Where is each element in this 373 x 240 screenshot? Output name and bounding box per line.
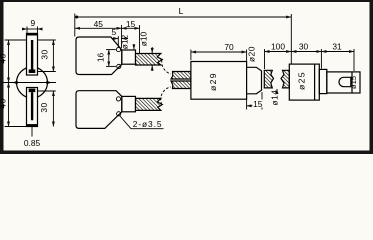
bottom bar bottom cap (27, 124, 37, 126)
svg-text:40: 40 (0, 98, 7, 108)
dashed bend curve lower (161, 87, 171, 105)
L dim line (75, 16, 291, 18)
45/15 shared ext (121, 25, 123, 48)
dim 70 line (191, 51, 247, 53)
border frame (0, 0, 373, 154)
stub (122, 50, 136, 64)
dim 40 lines left (8, 40, 10, 83)
connector slot (339, 77, 351, 86)
svg-text:ø25: ø25 (296, 71, 306, 90)
dim 40 top ext line (5, 39, 27, 41)
o10 arrow (151, 47, 153, 53)
dim 16 ext lines (106, 49, 116, 51)
svg-text:ø15: ø15 (349, 76, 358, 89)
svg-text:0.85: 0.85 (24, 138, 41, 148)
dim 5 ext from hole (117, 36, 119, 47)
dim 30 bottom right ext (38, 90, 56, 92)
svg-text:2-ø3.5: 2-ø3.5 (133, 119, 163, 129)
hole top (116, 48, 120, 52)
prong body (76, 91, 122, 129)
svg-text:30: 30 (299, 42, 309, 52)
hole top (116, 97, 120, 101)
bottom bar slot (31, 92, 33, 121)
L right ext (shared w 100/30) (290, 14, 292, 64)
15 right ext (139, 25, 141, 55)
svg-text:ø29: ø29 (208, 72, 218, 91)
svg-text:15: 15 (126, 19, 136, 29)
dim 45 line (75, 27, 122, 29)
svg-text:30: 30 (39, 49, 49, 59)
dashed bend curve upper (162, 60, 171, 74)
lower conduit hatched (136, 98, 163, 110)
svg-text:5: 5 (111, 27, 116, 37)
svg-text:ø12: ø12 (120, 34, 130, 49)
upper conduit hatched (136, 54, 163, 66)
equator tick left (15, 81, 18, 83)
circle boss (17, 67, 48, 98)
dim 40 bottom ext line (5, 126, 27, 128)
bottom bar segment outline (27, 88, 38, 127)
svg-text:15: 15 (253, 99, 263, 109)
stub (122, 96, 136, 111)
dim 30 top right ext (38, 39, 56, 41)
top bar slot (31, 40, 33, 70)
dim 30 top right line (52, 40, 54, 72)
dim 15 line (122, 27, 140, 29)
svg-text:ø20: ø20 (247, 46, 257, 62)
o12 arrow (133, 44, 135, 49)
bottom bar top cap (29, 89, 36, 93)
prong body (76, 37, 122, 75)
groove line (314, 64, 316, 100)
top bar segment outline (27, 33, 38, 75)
dim 9 ext lines (26, 27, 28, 34)
top bar top cap (27, 34, 37, 36)
svg-text:30: 30 (39, 102, 49, 112)
dim 70 ext lines (190, 50, 192, 61)
svg-text:70: 70 (224, 42, 234, 52)
equator tick right (46, 81, 49, 83)
dim 15 ext lines (246, 96, 248, 110)
L left ext (74, 14, 76, 37)
dimension drawing of dual-blade fork sensor (0, 0, 373, 154)
svg-text:31: 31 (332, 42, 342, 52)
connector inner edge (351, 72, 353, 93)
svg-text:100: 100 (271, 42, 285, 52)
leader 0.85 (31, 127, 33, 137)
dim 15 line (247, 105, 262, 107)
dim 30 bottom right line (52, 91, 54, 127)
svg-text:L: L (179, 6, 184, 16)
svg-text:16: 16 (95, 53, 105, 63)
dim 16 line (108, 50, 110, 67)
svg-text:ø10: ø10 (138, 31, 148, 46)
svg-text:ø14: ø14 (269, 90, 279, 106)
leader 2-o3.5 (120, 116, 132, 129)
hole bottom (117, 64, 121, 68)
dim 9 line (24, 28, 28, 30)
svg-text:45: 45 (94, 19, 104, 29)
top bar bottom cap (29, 69, 36, 73)
svg-text:9: 9 (30, 18, 35, 28)
equator centerline (4, 82, 57, 84)
hole bottom (117, 112, 121, 116)
dim 5 arrows (112, 38, 119, 40)
o14 arrow (276, 89, 278, 94)
svg-text:40: 40 (0, 53, 7, 63)
